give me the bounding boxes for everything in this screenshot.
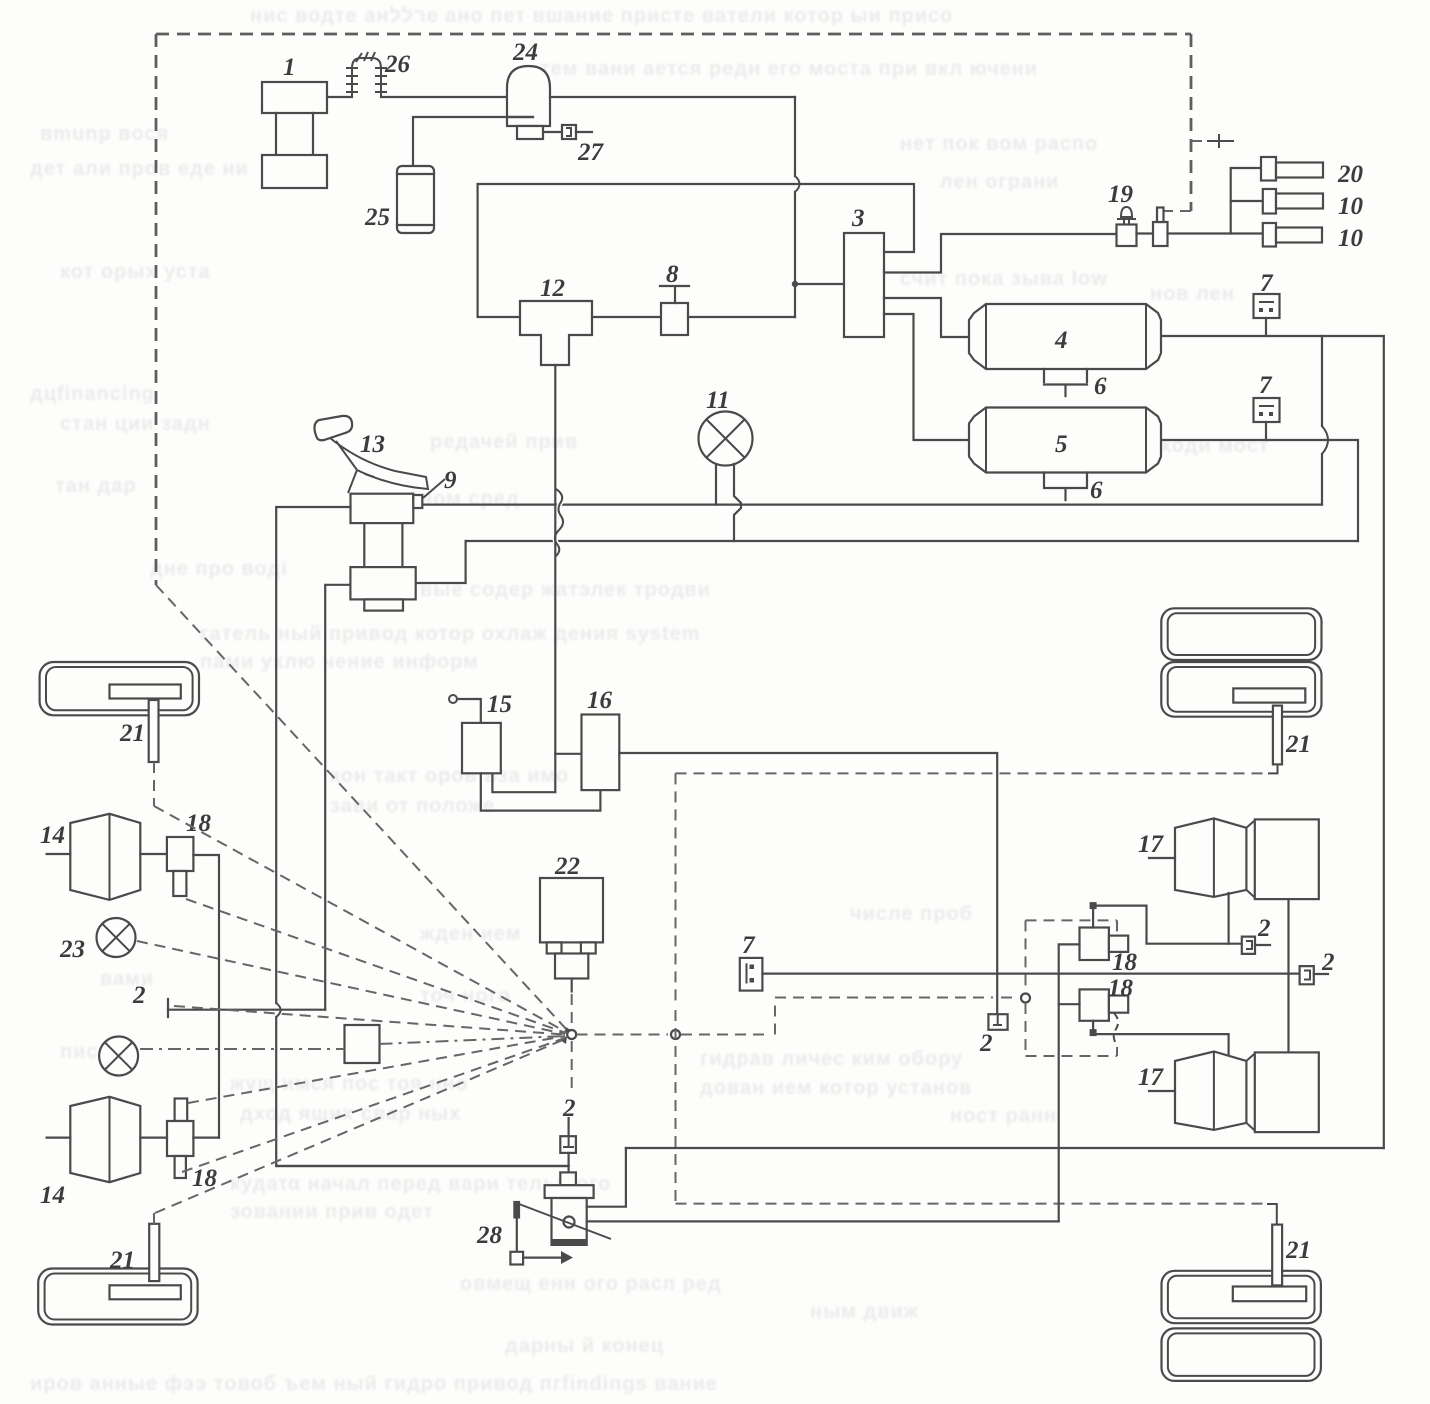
wire 19 to valve	[1137, 232, 1154, 234]
svg-text:3: 3	[851, 205, 865, 232]
svg-text:числе проб: числе проб	[850, 903, 973, 925]
wire coil to regulator 24	[381, 96, 507, 98]
abs valve 18 rear upper	[1080, 902, 1242, 960]
wire drop to 15	[492, 754, 555, 792]
wire 3 to safety valves line	[884, 234, 1117, 273]
svg-text:кот орых уста: кот орых уста	[60, 261, 211, 283]
svg-text:7: 7	[1259, 372, 1273, 399]
harness continues right	[681, 998, 993, 1035]
harness to lamp 23	[137, 941, 565, 1034]
riser tank4 circuit with hop	[1321, 336, 1323, 505]
svg-text:стан ции задн: стан ции задн	[60, 413, 211, 435]
compressor 1	[262, 82, 327, 188]
svg-text:9: 9	[444, 467, 457, 494]
front left wheel 21	[40, 662, 199, 715]
hop arc on left riser	[276, 1003, 280, 1017]
control lamp 11	[699, 412, 753, 466]
svg-text:22: 22	[554, 853, 580, 880]
svg-text:16: 16	[587, 687, 613, 714]
upper service line to brake valve	[422, 504, 1322, 506]
svg-text:24: 24	[512, 39, 538, 66]
svg-text:14: 14	[40, 1182, 65, 1209]
relay box on lamp line	[345, 1025, 380, 1063]
lower abs valve left wire	[1059, 1003, 1080, 1005]
vertical pipe x795 with hop over loop	[794, 97, 796, 317]
long rear control line	[762, 972, 1299, 974]
speed sensor stem front left	[149, 700, 159, 762]
diagnostic connector 2 mid	[988, 1014, 1007, 1030]
harness to abs box	[1001, 997, 1019, 999]
svg-text:20: 20	[1337, 161, 1364, 188]
dashed to rear bottom sensor	[676, 1203, 1268, 1205]
svg-text:2: 2	[1321, 949, 1335, 976]
svg-text:21: 21	[1285, 731, 1311, 758]
svg-text:лен ограни: лен ограни	[940, 171, 1059, 193]
svg-text:7: 7	[742, 932, 756, 959]
svg-text:гидрав личес ким обору: гидрав личес ким обору	[700, 1048, 963, 1070]
svg-text:тем вани ается редн его м: тем вани ается редн его моста при вкл юч…	[540, 58, 1038, 80]
svg-text:15: 15	[487, 691, 512, 718]
coupling head 10b	[1263, 223, 1322, 247]
wire valve9 lower left down	[325, 585, 350, 1010]
cable break squiggle	[555, 489, 563, 556]
junction node	[792, 281, 798, 287]
coupling head 20	[1261, 157, 1323, 181]
harness to front left sensor	[154, 762, 566, 1032]
svg-text:2: 2	[1257, 915, 1271, 942]
svg-text:14: 14	[40, 822, 65, 849]
coil 26	[346, 52, 387, 97]
svg-text:жден ием: жден ием	[419, 923, 522, 945]
harness dash-dot to low pressure lamp	[140, 1036, 566, 1049]
svg-text:ходи мост: ходи мост	[1160, 435, 1270, 457]
cylinder 25	[397, 166, 434, 233]
harness node to right	[577, 1034, 669, 1036]
svg-text:21: 21	[1285, 1237, 1311, 1264]
wire 12 to valve 8	[592, 316, 661, 318]
svg-text:дарны й конец: дарны й конец	[505, 1335, 664, 1357]
svg-text:13: 13	[360, 431, 385, 458]
tee12 drop line	[554, 365, 556, 754]
test connector 2 rear upper	[1242, 937, 1270, 954]
antifreeze pump 16	[582, 715, 620, 791]
svg-text:28: 28	[476, 1222, 503, 1249]
junction ring right	[671, 1030, 680, 1039]
svg-text:18: 18	[186, 810, 212, 837]
svg-text:ност ранн: ност ранн	[950, 1105, 1057, 1127]
lower service line to brake valve	[466, 540, 1358, 542]
wire 3 to tank 4	[884, 298, 969, 337]
svg-text:6: 6	[1094, 373, 1107, 400]
tee 12	[520, 301, 592, 365]
brake chamber 14 upper	[47, 814, 141, 900]
dashed stub to symbol	[1191, 140, 1205, 142]
valve 27	[543, 125, 592, 139]
svg-text:дне про воді: дне про воді	[150, 558, 288, 580]
brake pedal 13	[314, 416, 428, 493]
tow valve	[1153, 208, 1168, 247]
dashed border left	[155, 34, 158, 585]
wire to couplings	[1168, 232, 1263, 234]
svg-text:8: 8	[666, 261, 679, 288]
unloader 3	[844, 233, 884, 337]
harness to rear left sensor	[154, 1039, 565, 1224]
test connector 2 far right	[1300, 966, 1328, 984]
svg-text:нет пок вом распо: нет пок вом распо	[900, 133, 1098, 155]
loop pipe from 24 down to tee 12	[478, 184, 914, 252]
coupling branch mid	[1231, 200, 1263, 202]
connector 2 stem	[567, 1118, 569, 1136]
elbow rear bottom sensor	[1267, 1204, 1277, 1224]
pressure sensor 7 top	[1254, 294, 1280, 336]
harness to valve 18 lower stem	[182, 1038, 565, 1172]
elbow to rear top sensor	[1268, 764, 1278, 773]
wire brake valve lower to riser	[416, 541, 466, 583]
wire node to unloader 3	[795, 283, 844, 285]
axis mark symbol	[1207, 134, 1234, 148]
air tank 4	[969, 304, 1161, 369]
pressure sensor 7 mid	[1254, 398, 1280, 440]
svg-text:дет али пров еде ни: дет али пров еде ни	[30, 158, 249, 180]
spring brake chamber 17 bottom	[1149, 1052, 1319, 1133]
control lamp 23	[97, 918, 136, 957]
connector 2 center	[560, 1136, 576, 1153]
pipe chamber17 to valve line	[1227, 893, 1229, 944]
harness to valve 18 front upper	[186, 899, 566, 1033]
svg-text:5: 5	[1055, 431, 1068, 458]
lamp legs	[715, 464, 717, 505]
drain valve 6b	[1044, 473, 1087, 501]
speed sensor stem rear bottom	[1272, 1225, 1282, 1286]
pressure sensor 7 rear	[740, 958, 763, 991]
svg-text:10: 10	[1338, 193, 1364, 220]
svg-text:2: 2	[979, 1030, 993, 1057]
svg-text:4: 4	[1054, 327, 1068, 354]
svg-text:вmunp вося: вmunp вося	[40, 123, 169, 145]
wire tank4 to right edge	[1161, 335, 1384, 337]
drain valve 6	[1044, 369, 1087, 396]
svg-text:дцfinancing: дцfinancing	[30, 383, 155, 405]
wire valve9 upper left down	[276, 507, 568, 1166]
svg-text:25: 25	[364, 204, 390, 231]
control lamp low pressure	[99, 1037, 138, 1076]
svg-text:пами уклю чение информ: пами уклю чение информ	[200, 651, 479, 673]
dashed vertical to rear bottom	[675, 773, 677, 1203]
svg-text:дован ием котор установ: дован ием котор установ	[700, 1077, 972, 1099]
wire 3 to tank 5	[884, 314, 969, 440]
svg-text:7: 7	[1260, 270, 1274, 297]
wire 15 bottom loop to 16	[481, 772, 601, 811]
left riser for abs valves	[1059, 944, 1080, 1221]
long rear feed line	[626, 1147, 1384, 1149]
rear right bottom wheels 21	[1162, 1271, 1321, 1381]
pressure reducer 15	[462, 723, 501, 773]
svg-text:6: 6	[1090, 477, 1103, 504]
svg-text:21: 21	[119, 720, 145, 747]
wire 24 branch to cylinder 25	[413, 117, 533, 166]
speed sensor stem rear left	[149, 1224, 159, 1281]
hop arc over tank5 line	[1322, 426, 1328, 454]
dashed border right segment	[1190, 34, 1193, 211]
test connection 2 front	[168, 999, 325, 1017]
wire tank5 to riser	[1161, 440, 1358, 541]
wire drop to 16	[555, 753, 581, 755]
svg-text:1: 1	[283, 54, 296, 81]
svg-text:19: 19	[1108, 181, 1134, 208]
svg-text:овмещ енн ого расп ред: овмещ енн ого расп ред	[460, 1273, 722, 1295]
horn valve 28	[510, 1172, 611, 1264]
svg-text:жущ имся пос тоя нно: жущ имся пос тоя нно	[229, 1073, 469, 1095]
wheel valve 18 front lower	[140, 1099, 219, 1179]
dashed harness 22 to node	[571, 994, 573, 1024]
svg-text:18: 18	[1112, 949, 1138, 976]
svg-text:вами: вами	[100, 968, 154, 990]
svg-text:кон такт оров взa имо: кон такт оров взa имо	[330, 765, 569, 787]
svg-text:зовании прив одет: зовании прив одет	[230, 1201, 434, 1223]
pressure regulator 24	[507, 66, 550, 139]
dashed border top	[156, 33, 1191, 36]
electronic unit 22	[540, 878, 603, 992]
wheel valve 18 front upper	[140, 837, 219, 1138]
wire 28 lower to rear	[587, 1220, 1059, 1222]
svg-text:18: 18	[1108, 975, 1134, 1002]
dashed corner from 16 line	[676, 772, 1269, 774]
long right edge down	[1383, 336, 1385, 1148]
spring brake chamber 17 top	[1149, 818, 1319, 899]
coupling head 10	[1263, 189, 1323, 214]
svg-text:ном сред: ном сред	[420, 488, 520, 510]
svg-text:17: 17	[1138, 831, 1165, 858]
junction ring on abs box edge	[1021, 994, 1030, 1003]
drain cock circle 15 inlet	[449, 695, 481, 723]
harness node P	[567, 1030, 576, 1039]
brake valve 9	[350, 494, 422, 611]
pipe chamber17 rect down	[1287, 899, 1289, 1052]
svg-text:гатель ный привод котор ох: гатель ный привод котор охлаж дения syst…	[200, 623, 701, 645]
svg-text:11: 11	[706, 387, 730, 414]
brake chamber 14 lower	[47, 1097, 141, 1182]
svg-text:ным движ: ным движ	[810, 1301, 919, 1323]
dashed node to connector 2	[571, 1041, 573, 1092]
stop light switch line	[276, 1165, 568, 1167]
svg-text:тан дар: тан дар	[55, 475, 137, 497]
svg-text:12: 12	[540, 275, 565, 302]
air tank 5	[969, 408, 1161, 473]
dashed elbow to safety valve	[1164, 210, 1191, 212]
svg-text:23: 23	[59, 936, 85, 963]
speed sensor stem rear top	[1273, 706, 1282, 765]
hop arc	[795, 176, 800, 192]
harness to connection 2	[174, 1006, 564, 1035]
svg-text:иров анные фээ товоб ъем: иров анные фээ товоб ъем ный гидро приво…	[30, 1373, 718, 1395]
svg-text:26: 26	[384, 51, 411, 78]
svg-text:27: 27	[577, 139, 605, 166]
harness to valve 18 front lower	[188, 1036, 565, 1103]
harness to border corner	[156, 585, 567, 1030]
svg-text:зави от положе: зави от положе	[330, 795, 495, 817]
wire 8 to vertical	[688, 316, 795, 318]
valve 8	[660, 286, 689, 335]
rear right top wheels 21	[1161, 608, 1321, 716]
safety valve 19	[1117, 207, 1137, 246]
coupling riser	[1231, 168, 1261, 234]
svg-text:нис водте анרללe ано пет вшани: нис водте анרללe ано пет вшание присте в…	[250, 5, 953, 27]
abs valve 18 rear lower	[1080, 989, 1229, 1055]
wire 16 to trailer circuit	[619, 753, 997, 1014]
wire 28 to rear line	[587, 1148, 626, 1207]
svg-text:21: 21	[109, 1247, 135, 1274]
dashed abs box	[1026, 919, 1118, 921]
svg-text:счит пока зыва low: счит пока зыва low	[900, 268, 1108, 290]
svg-text:нов лен: нов лен	[1150, 283, 1235, 305]
wire connector to horn valve	[567, 1153, 569, 1177]
svg-text:10: 10	[1338, 225, 1364, 252]
svg-text:точ ного: точ ного	[420, 985, 511, 1007]
wire 24 to right	[550, 96, 795, 98]
svg-text:дход ящих свар ных: дход ящих свар ных	[240, 1103, 461, 1125]
rear left wheel 21	[38, 1269, 197, 1325]
svg-text:17: 17	[1138, 1064, 1165, 1091]
wire compressor to coil	[327, 96, 352, 98]
svg-text:2: 2	[132, 982, 146, 1009]
